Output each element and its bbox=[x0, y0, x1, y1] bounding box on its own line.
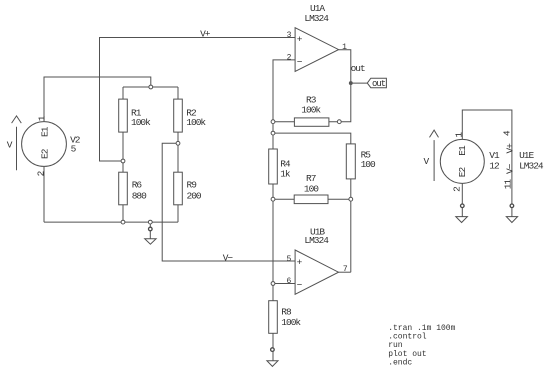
svg-text:LM324: LM324 bbox=[304, 235, 329, 246]
svg-text:LM324: LM324 bbox=[304, 13, 329, 24]
svg-text:1k: 1k bbox=[280, 169, 291, 180]
svg-text:V−: V− bbox=[223, 252, 234, 263]
svg-text:100k: 100k bbox=[281, 317, 301, 328]
svg-text:V+: V+ bbox=[200, 29, 211, 40]
svg-text:R8: R8 bbox=[281, 306, 292, 317]
svg-text:100: 100 bbox=[361, 159, 376, 170]
svg-text:E2: E2 bbox=[39, 148, 50, 159]
svg-text:100: 100 bbox=[304, 184, 319, 195]
svg-text:880: 880 bbox=[132, 190, 147, 201]
svg-text:out: out bbox=[351, 63, 365, 74]
svg-text:E1: E1 bbox=[457, 145, 468, 156]
svg-text:11: 11 bbox=[502, 179, 513, 190]
svg-text:100k: 100k bbox=[186, 117, 206, 128]
svg-text:100k: 100k bbox=[301, 104, 321, 115]
svg-text:E2: E2 bbox=[457, 166, 468, 177]
svg-text:.endc: .endc bbox=[388, 358, 412, 367]
svg-text:E1: E1 bbox=[39, 126, 50, 137]
svg-text:LM324: LM324 bbox=[519, 161, 544, 172]
svg-text:V−: V− bbox=[504, 163, 515, 174]
svg-text:R6: R6 bbox=[132, 180, 143, 191]
svg-text:200: 200 bbox=[187, 190, 202, 201]
svg-text:V+: V+ bbox=[504, 143, 515, 154]
svg-text:R9: R9 bbox=[187, 180, 198, 191]
svg-text:12: 12 bbox=[489, 161, 500, 172]
svg-text:100k: 100k bbox=[131, 117, 151, 128]
svg-text:out: out bbox=[372, 79, 386, 89]
